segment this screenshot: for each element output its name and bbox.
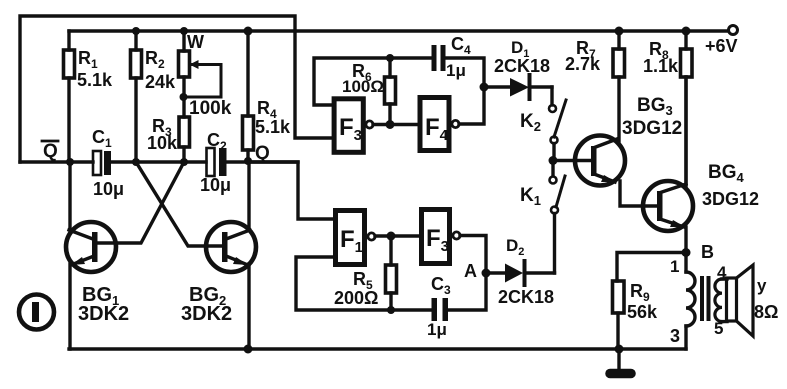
svg-text:K2: K2	[520, 111, 541, 134]
svg-text:1: 1	[670, 257, 679, 276]
gate F1	[336, 211, 376, 265]
svg-text:10k: 10k	[147, 133, 178, 153]
svg-text:C3: C3	[431, 274, 451, 297]
svg-text:100k: 100k	[189, 98, 232, 119]
gate F3 lower	[422, 210, 461, 264]
junction: R6 top on feedback wire	[386, 54, 394, 62]
svg-text:100Ω: 100Ω	[342, 77, 384, 96]
svg-text:C4: C4	[451, 34, 471, 57]
junction: rail at R8	[682, 27, 691, 36]
svg-text:3DG12: 3DG12	[622, 118, 682, 139]
svg-text:1.1k: 1.1k	[643, 56, 679, 76]
transistor BG4 3DG12	[643, 77, 759, 252]
gate F4	[420, 98, 459, 151]
svg-text:R2: R2	[145, 48, 165, 71]
svg-text:10μ: 10μ	[200, 175, 231, 195]
svg-text:2CK18: 2CK18	[494, 56, 550, 76]
svg-text:R1: R1	[78, 48, 98, 71]
svg-text:200Ω: 200Ω	[334, 288, 378, 308]
ground	[610, 349, 631, 374]
speaker Y 8ohm	[727, 265, 779, 336]
resistor R1	[64, 31, 114, 162]
capacitor C4 1u	[432, 34, 472, 80]
wire: oscillator1 feedback and input stubs	[314, 58, 484, 125]
resistor R5 200ohm	[334, 236, 397, 310]
resistor R4	[243, 31, 292, 161]
capacitor C3 1u	[427, 274, 451, 339]
capacitor C2 10u	[200, 130, 231, 195]
svg-text:A: A	[464, 261, 477, 281]
transistor BG2 3DK2	[181, 161, 256, 349]
svg-text:F4: F4	[425, 114, 449, 144]
svg-text:R9: R9	[630, 281, 650, 304]
wire: cross-coupling R2 bottom to BG2 base	[136, 162, 222, 246]
svg-text:F1: F1	[340, 226, 363, 256]
junction: rail at BG2 emitter	[244, 345, 253, 354]
junction: rail at W top	[180, 27, 188, 35]
svg-text:D2: D2	[506, 236, 524, 258]
resistor R9 56k	[613, 281, 659, 349]
wire: +6V supply rail	[69, 29, 728, 32]
wire: oscillator2 loop	[296, 236, 486, 311]
junction: F3 output node	[386, 120, 395, 129]
node A	[464, 261, 491, 281]
transistor BG3 3DG12	[575, 95, 682, 186]
resistor R6 100ohm	[342, 58, 396, 124]
transformer B	[670, 253, 727, 350]
svg-text:BG4: BG4	[708, 162, 745, 185]
junction: W wiper to R3	[180, 93, 188, 101]
svg-text:5.1k: 5.1k	[255, 117, 291, 137]
resistor R8 1.1k	[643, 31, 692, 186]
diode D1 2CK18	[484, 38, 552, 99]
svg-text:F3: F3	[339, 114, 362, 144]
junction: Q-bar at R1/BG1 column	[66, 158, 74, 166]
junction: rail at R9 bottom	[615, 345, 624, 354]
svg-text:B: B	[701, 242, 714, 262]
capacitor C1 10u	[92, 127, 124, 199]
svg-text:3: 3	[670, 326, 680, 346]
gate F3 upper	[334, 99, 373, 153]
node: +6V terminal	[705, 26, 738, 57]
wire: switch node to BG3 base	[553, 159, 591, 162]
svg-text:W: W	[187, 32, 204, 52]
wire: node B to R9	[617, 253, 686, 282]
svg-text:2CK18: 2CK18	[498, 287, 554, 307]
junction: D1 branch node	[480, 83, 489, 92]
junction: rail at R7	[615, 27, 624, 36]
node B	[682, 242, 715, 262]
diode D2 2CK18	[486, 236, 555, 307]
svg-text:3DK2: 3DK2	[78, 303, 129, 325]
wire: Q output to gate F1 input	[248, 162, 333, 219]
switch K1	[520, 164, 565, 273]
wire: Q-bar feedback loop top-left to gate F3 input	[20, 16, 332, 162]
resistor R2	[131, 31, 177, 162]
transistor BG1 3DK2	[66, 162, 129, 349]
svg-text:5.1k: 5.1k	[77, 70, 113, 90]
svg-text:2.7k: 2.7k	[565, 54, 601, 74]
junction: Q node at R4 column	[244, 157, 252, 165]
resistor R3	[147, 116, 190, 162]
svg-text:BG3: BG3	[637, 95, 673, 118]
svg-text:C2: C2	[207, 130, 227, 153]
junction: Q-bar at R2 column	[132, 158, 140, 166]
svg-text:y: y	[757, 276, 767, 295]
potentiometer W 100k	[179, 31, 232, 119]
figure number 1 in circle	[19, 295, 54, 330]
node: Q-bar label	[42, 141, 58, 162]
junction: rail at R4 top	[244, 27, 253, 36]
wire: BG3 emitter to BG4 base	[620, 181, 657, 206]
svg-text:3DK2: 3DK2	[181, 303, 232, 325]
svg-text:5: 5	[714, 319, 723, 338]
svg-text:3DG12: 3DG12	[702, 189, 759, 209]
wire: Q-bar bus	[20, 160, 298, 163]
junction: R5 bottom	[387, 306, 395, 314]
junction: switch common node to BG3 base	[549, 156, 558, 165]
svg-text:C1: C1	[92, 127, 112, 150]
svg-text:1μ: 1μ	[427, 320, 447, 339]
svg-text:10μ: 10μ	[93, 179, 124, 199]
wire: bottom ground rail	[69, 347, 686, 350]
svg-text:8Ω: 8Ω	[754, 302, 778, 322]
svg-text:1μ: 1μ	[446, 61, 466, 80]
svg-text:K1: K1	[520, 185, 541, 208]
svg-text:56k: 56k	[627, 302, 658, 322]
svg-text:Q: Q	[43, 141, 58, 162]
svg-text:+6V: +6V	[705, 36, 738, 56]
junction: rail at R2 top	[132, 27, 140, 35]
svg-text:F3: F3	[426, 225, 449, 255]
switch K2	[520, 87, 566, 157]
junction: Q-bar at R3 column	[180, 158, 188, 166]
junction: F1 output node	[387, 232, 396, 241]
resistor R7 2.7k	[565, 31, 625, 141]
svg-text:24k: 24k	[145, 72, 176, 92]
wire: cross-coupling R3 bottom to BG1 base	[97, 162, 184, 243]
